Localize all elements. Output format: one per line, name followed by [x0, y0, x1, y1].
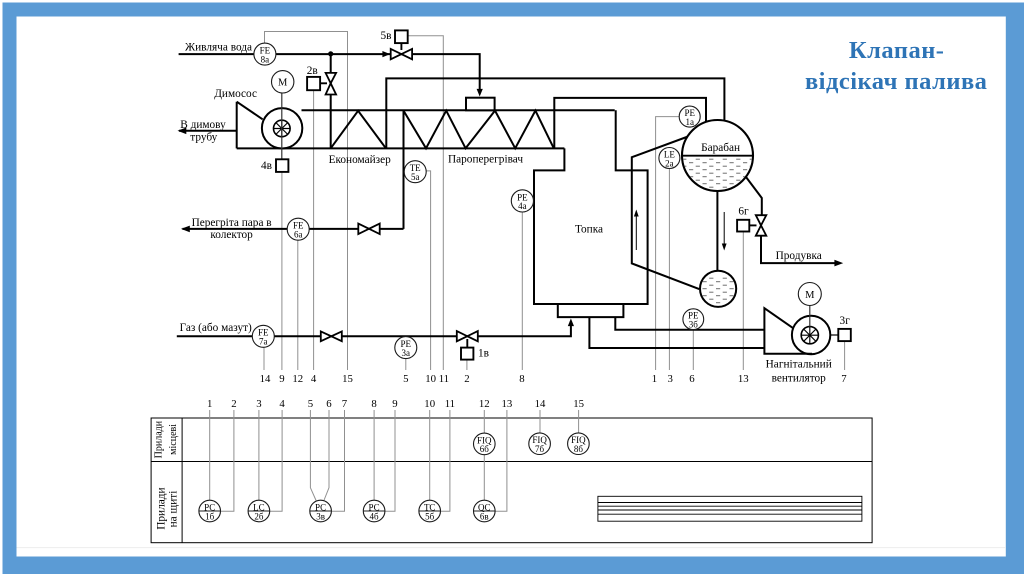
svg-text:10: 10 — [424, 398, 435, 410]
svg-text:Продувка: Продувка — [776, 250, 822, 262]
svg-text:1в: 1в — [478, 347, 489, 359]
svg-text:4в: 4в — [261, 160, 272, 172]
svg-text:1: 1 — [207, 398, 212, 410]
svg-text:13: 13 — [502, 398, 513, 410]
svg-text:4: 4 — [311, 373, 317, 385]
svg-text:4а: 4а — [518, 201, 527, 211]
svg-text:6: 6 — [326, 398, 332, 410]
svg-text:1а: 1а — [685, 117, 694, 127]
svg-text:8: 8 — [371, 398, 376, 410]
svg-text:Клапан-: Клапан- — [849, 37, 945, 64]
svg-text:Пароперегрівач: Пароперегрівач — [448, 154, 523, 166]
svg-text:Газ (або мазут): Газ (або мазут) — [180, 322, 252, 334]
svg-text:7а: 7а — [259, 337, 268, 347]
svg-text:Економайзер: Економайзер — [329, 154, 392, 166]
svg-text:12: 12 — [479, 398, 490, 410]
svg-text:Топка: Топка — [575, 223, 603, 235]
svg-text:2а: 2а — [665, 158, 674, 168]
svg-text:Прилади: Прилади — [156, 487, 168, 529]
svg-text:1: 1 — [652, 373, 657, 385]
svg-text:7: 7 — [342, 398, 348, 410]
svg-text:15: 15 — [342, 373, 353, 385]
svg-text:Перегріта пара в: Перегріта пара в — [192, 217, 272, 229]
svg-text:2: 2 — [231, 398, 236, 410]
svg-text:трубу: трубу — [190, 132, 217, 144]
svg-text:9: 9 — [392, 398, 397, 410]
svg-text:Живляча вода: Живляча вода — [185, 42, 252, 54]
svg-text:7б: 7б — [535, 444, 545, 454]
svg-text:8: 8 — [519, 373, 524, 385]
svg-text:3: 3 — [667, 373, 672, 385]
svg-text:відсікач палива: відсікач палива — [805, 68, 988, 95]
svg-text:4: 4 — [279, 398, 285, 410]
svg-text:вентилятор: вентилятор — [772, 372, 827, 384]
svg-text:6в: 6в — [480, 511, 489, 521]
svg-text:В димову: В димову — [180, 119, 226, 131]
svg-text:Нагнітальний: Нагнітальний — [766, 358, 832, 370]
svg-text:2в: 2в — [307, 65, 318, 77]
svg-text:2: 2 — [464, 373, 469, 385]
svg-text:14: 14 — [535, 398, 546, 410]
svg-text:Димосос: Димосос — [214, 88, 257, 100]
svg-text:3: 3 — [256, 398, 261, 410]
svg-text:5: 5 — [308, 398, 313, 410]
svg-text:14: 14 — [260, 373, 271, 385]
svg-text:4б: 4б — [370, 511, 380, 521]
svg-text:12: 12 — [292, 373, 303, 385]
svg-text:5: 5 — [403, 373, 408, 385]
svg-text:6а: 6а — [294, 230, 303, 240]
svg-text:2б: 2б — [254, 511, 264, 521]
svg-text:колектор: колектор — [210, 229, 253, 241]
svg-text:Барабан: Барабан — [701, 142, 740, 154]
svg-text:3в: 3в — [316, 511, 325, 521]
svg-text:11: 11 — [445, 398, 455, 410]
svg-text:6б: 6б — [480, 444, 490, 454]
svg-text:9: 9 — [279, 373, 284, 385]
svg-text:6г: 6г — [738, 206, 749, 218]
svg-text:5в: 5в — [381, 30, 392, 42]
svg-text:1б: 1б — [205, 511, 215, 521]
svg-text:М: М — [278, 78, 288, 89]
svg-text:7: 7 — [841, 373, 847, 385]
svg-text:на щиті: на щиті — [168, 491, 180, 528]
svg-text:8б: 8б — [574, 444, 584, 454]
svg-text:6: 6 — [689, 373, 695, 385]
svg-text:3б: 3б — [689, 320, 699, 330]
svg-text:15: 15 — [573, 398, 584, 410]
svg-text:5а: 5а — [411, 172, 420, 182]
svg-text:11: 11 — [439, 373, 449, 385]
svg-text:3а: 3а — [402, 348, 411, 358]
svg-text:8а: 8а — [261, 54, 270, 64]
svg-text:5б: 5б — [425, 511, 435, 521]
svg-text:М: М — [805, 290, 815, 301]
svg-text:13: 13 — [738, 373, 749, 385]
svg-text:Прилади: Прилади — [154, 420, 165, 458]
svg-text:10: 10 — [425, 373, 436, 385]
svg-text:місцеві: місцеві — [168, 424, 179, 455]
svg-text:3г: 3г — [840, 315, 851, 327]
